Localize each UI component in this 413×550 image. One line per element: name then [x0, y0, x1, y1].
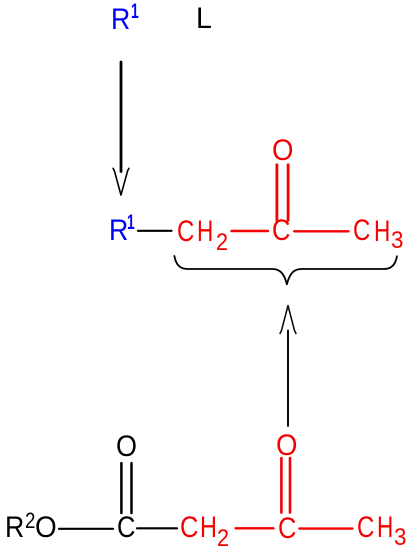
label O ester carbonyl (bottom, black) [116, 432, 137, 462]
label R1 (top) [111, 5, 130, 35]
label O carbonyl (middle, red) [272, 136, 293, 166]
wire: reaction arrow open head (down) [113, 168, 129, 195]
bond CH2-C (bottom row, red) [236, 527, 274, 529]
double bond C=O (middle row, red) [275, 165, 278, 220]
double bond C=O (bottom row, red) [280, 458, 283, 513]
wire: reaction arrow shaft (up) [287, 331, 289, 427]
bond C-CH3 (middle row, red) [294, 230, 348, 232]
label CH3 (bottom, red) [357, 513, 374, 543]
label R2O (bottom, black) [5, 513, 24, 543]
label CH2 (middle, red) [177, 217, 194, 247]
label C carbonyl (middle, red) [272, 216, 290, 246]
label C ketone (bottom, red) [278, 514, 296, 544]
label O ketone (bottom, red) [276, 431, 297, 461]
bond CH2-C (middle row, red) [232, 230, 269, 232]
bond C-CH2 (bottom row, black) [137, 527, 177, 529]
double bond C=O (bottom row, black) [120, 463, 123, 513]
label R1 (middle) [109, 216, 128, 246]
bond R1-CH2 (middle row) [138, 230, 172, 232]
wire: reaction arrow open head (up) [280, 306, 296, 334]
label L (top) [196, 4, 212, 34]
underbrace [174, 256, 397, 284]
bond R2O-C (bottom row) [59, 528, 113, 530]
bond C-CH3 (bottom row, red) [299, 527, 352, 529]
label C ester carbonyl (bottom, black) [117, 513, 135, 543]
label CH3 (middle, red) [353, 216, 370, 246]
wire: reaction arrow shaft (down) [120, 62, 123, 172]
label CH2 (bottom, red) [180, 513, 198, 543]
